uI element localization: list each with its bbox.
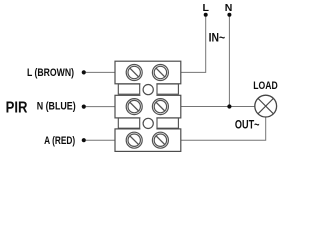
svg-text:N (BLUE): N (BLUE) <box>37 101 76 113</box>
svg-text:LOAD: LOAD <box>253 80 278 92</box>
svg-text:IN~: IN~ <box>209 31 226 45</box>
svg-text:A (RED): A (RED) <box>44 135 75 147</box>
svg-text:N: N <box>225 2 233 14</box>
svg-text:OUT~: OUT~ <box>235 118 260 132</box>
svg-text:L (BROWN): L (BROWN) <box>27 67 74 79</box>
svg-text:L: L <box>202 2 209 14</box>
svg-text:PIR: PIR <box>6 100 28 117</box>
